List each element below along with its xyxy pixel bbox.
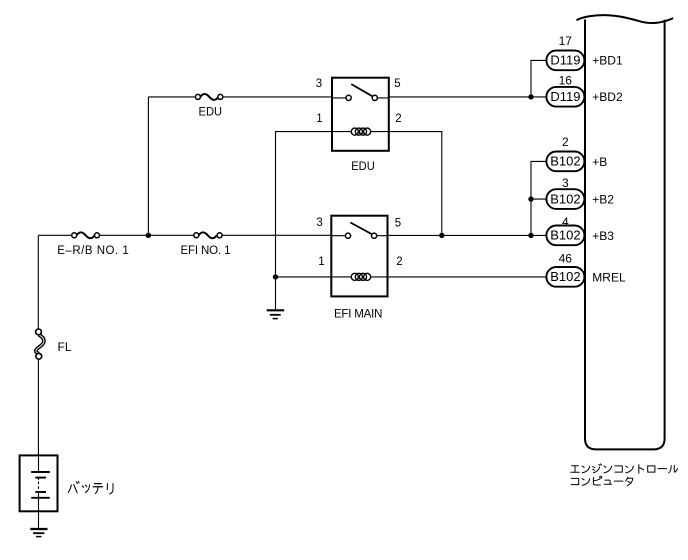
svg-text:17: 17 bbox=[559, 34, 573, 48]
svg-text:1: 1 bbox=[316, 113, 322, 125]
svg-text:+B3: +B3 bbox=[592, 229, 614, 243]
svg-text:1: 1 bbox=[318, 256, 324, 268]
svg-text:FL: FL bbox=[58, 340, 72, 354]
svg-text:EFI NO. 1: EFI NO. 1 bbox=[181, 245, 231, 257]
svg-text:+BD1: +BD1 bbox=[592, 54, 623, 68]
svg-text:E–R/B NO. 1: E–R/B NO. 1 bbox=[57, 245, 129, 257]
svg-text:D119: D119 bbox=[550, 89, 580, 104]
svg-text:B102: B102 bbox=[550, 191, 580, 206]
svg-text:EFI MAIN: EFI MAIN bbox=[334, 309, 383, 321]
svg-text:EDU: EDU bbox=[199, 106, 223, 118]
svg-text:46: 46 bbox=[559, 251, 573, 265]
svg-text:2: 2 bbox=[562, 135, 569, 149]
svg-text:2: 2 bbox=[395, 113, 401, 125]
svg-text:+B2: +B2 bbox=[592, 193, 614, 207]
svg-text:5: 5 bbox=[394, 78, 400, 90]
svg-text:5: 5 bbox=[395, 218, 401, 230]
svg-text:3: 3 bbox=[316, 217, 322, 229]
svg-text:MREL: MREL bbox=[592, 270, 626, 284]
svg-text:D119: D119 bbox=[550, 53, 580, 68]
svg-text:EDU: EDU bbox=[351, 161, 375, 173]
svg-text:B102: B102 bbox=[550, 269, 580, 284]
svg-text:3: 3 bbox=[316, 78, 322, 90]
svg-text:16: 16 bbox=[559, 74, 573, 88]
svg-text:2: 2 bbox=[396, 256, 402, 268]
svg-text:B102: B102 bbox=[550, 228, 580, 243]
svg-text:B102: B102 bbox=[550, 154, 580, 169]
svg-text:+B: +B bbox=[592, 155, 607, 169]
svg-text:3: 3 bbox=[562, 176, 569, 190]
svg-text:+BD2: +BD2 bbox=[592, 90, 623, 104]
